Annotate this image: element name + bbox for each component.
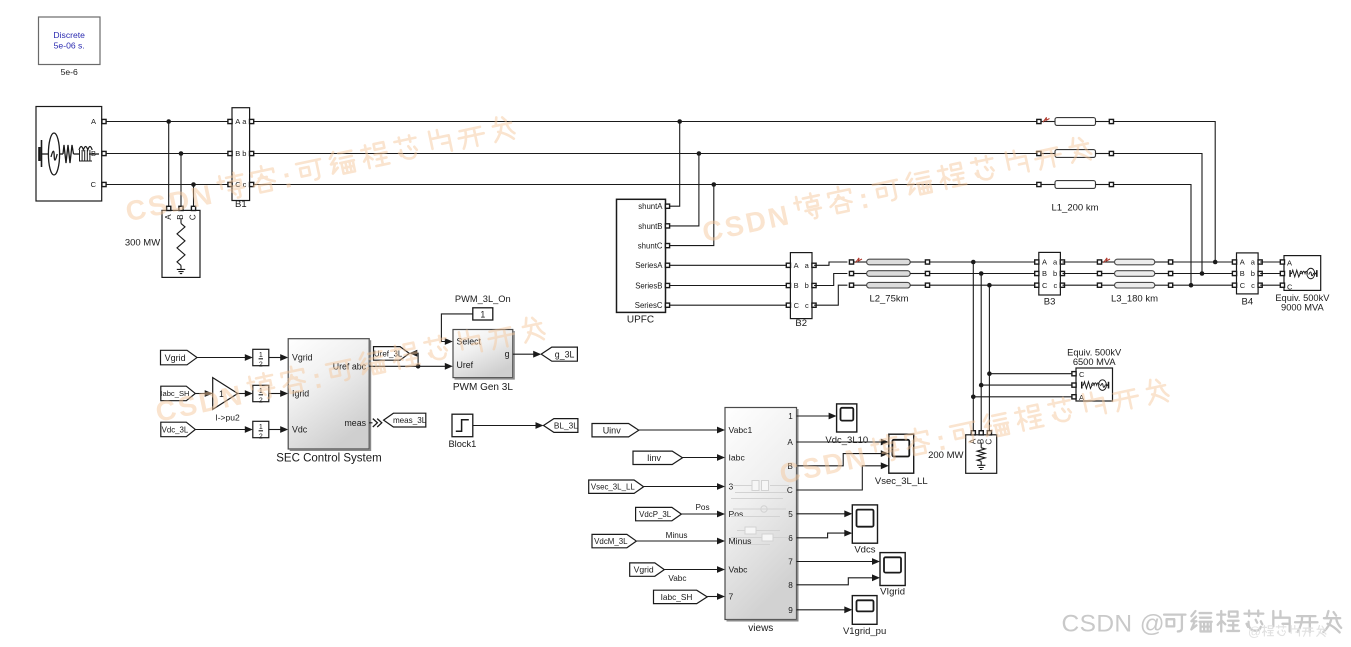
wire Iabc_SH to gain bbox=[195, 390, 212, 397]
svg-text:7: 7 bbox=[729, 592, 734, 602]
views input arrow bbox=[717, 454, 725, 461]
wire B2b to L2 bbox=[814, 274, 847, 286]
Goto tag meas_3L bbox=[384, 413, 427, 427]
svg-text:shuntC: shuntC bbox=[638, 242, 663, 251]
svg-text:L3_180 km: L3_180 km bbox=[1111, 294, 1158, 305]
wire drop A to 300MW bbox=[168, 122, 170, 207]
svg-text:A: A bbox=[787, 438, 793, 447]
wire PWM_3L_On to Select bbox=[441, 314, 472, 345]
wire bus C source-B1 bbox=[106, 184, 228, 186]
wire drop c to 200MW bbox=[988, 285, 990, 431]
scope Vdc_3L10 bbox=[825, 404, 868, 446]
node shuntC tap bbox=[712, 182, 717, 187]
wire Vdc_3L to half3 bbox=[195, 426, 253, 433]
wire L1b down bbox=[1114, 154, 1203, 274]
node shuntB tap bbox=[697, 151, 702, 156]
svg-text:g_3L: g_3L bbox=[555, 349, 575, 359]
UPFC subsystem block bbox=[617, 199, 670, 325]
B1 three-phase VI measurement bbox=[228, 108, 254, 210]
svg-text:V1grid_pu: V1grid_pu bbox=[843, 626, 886, 637]
wire meas bbox=[369, 419, 382, 427]
wire SeriesC to B2 bbox=[670, 304, 789, 306]
svg-text:Vabc: Vabc bbox=[729, 565, 749, 575]
wire B4-eq c bbox=[1260, 284, 1280, 286]
node L1a join bbox=[1213, 260, 1218, 265]
wire VdcP to views bbox=[681, 513, 721, 515]
From tag Vdc_3L bbox=[161, 422, 196, 437]
svg-text:6: 6 bbox=[788, 534, 793, 543]
wire out6 to Vdcs bbox=[797, 530, 853, 538]
svg-text:Vabc: Vabc bbox=[668, 574, 686, 583]
svg-text:SeriesC: SeriesC bbox=[635, 301, 663, 310]
wire Block1 to BL_3L bbox=[473, 422, 544, 429]
svg-text:C: C bbox=[1240, 281, 1246, 290]
From tag Vgrid2 bbox=[630, 563, 665, 576]
svg-text:SeriesB: SeriesB bbox=[635, 281, 662, 290]
svg-text:B: B bbox=[1240, 269, 1245, 278]
node bus A tap bbox=[166, 119, 171, 124]
From tag Vgrid bbox=[161, 350, 198, 365]
views input arrow bbox=[717, 593, 725, 600]
wire drop b to 200MW bbox=[980, 274, 982, 431]
wire Uinv to views bbox=[639, 429, 722, 431]
wire half2 to SEC bbox=[269, 390, 288, 397]
svg-text:A: A bbox=[91, 117, 96, 126]
svg-text:SEC Control System: SEC Control System bbox=[276, 453, 381, 465]
wire to equiv6500 A bbox=[973, 396, 1072, 398]
svg-text:A: A bbox=[794, 261, 799, 270]
svg-text:5e-06 s.: 5e-06 s. bbox=[54, 41, 85, 51]
svg-text:Vgrid: Vgrid bbox=[634, 565, 654, 575]
From tag VdcM_3L bbox=[592, 534, 636, 547]
wire L2-B3 b bbox=[930, 273, 1037, 275]
wire Uref up to tag bbox=[409, 350, 418, 367]
svg-text:L1_200 km: L1_200 km bbox=[1051, 203, 1098, 214]
wire drop B to 300MW bbox=[180, 154, 182, 207]
watermark 4 bbox=[777, 376, 1171, 490]
label Vabc bbox=[668, 574, 686, 583]
300 MW load block bbox=[125, 206, 200, 277]
svg-text:BL_3L: BL_3L bbox=[554, 420, 578, 430]
wire B4-eq b bbox=[1260, 273, 1280, 275]
node tap b mid-bus bbox=[979, 271, 984, 276]
From tag Iabc_SH bbox=[160, 386, 195, 401]
constant PWM_3L_On bbox=[455, 294, 511, 320]
SEC Control System subsystem bbox=[276, 339, 381, 465]
CSDN ghost small bbox=[1248, 624, 1326, 639]
svg-text:Uref: Uref bbox=[457, 360, 474, 370]
svg-text:Vdc_3L: Vdc_3L bbox=[162, 425, 189, 434]
B4 three-phase VI measurement bbox=[1232, 253, 1262, 308]
svg-text:B1: B1 bbox=[235, 199, 247, 210]
watermark 2 bbox=[699, 134, 1093, 248]
svg-text:b: b bbox=[805, 281, 809, 290]
svg-text:Iabc: Iabc bbox=[729, 453, 746, 463]
svg-text:A: A bbox=[235, 117, 240, 126]
svg-text:9000 MVA: 9000 MVA bbox=[1281, 303, 1325, 313]
Goto tag Uref_3L bbox=[374, 347, 410, 361]
svg-text:Vgrid: Vgrid bbox=[165, 353, 186, 363]
scope V1grid_pu bbox=[843, 596, 886, 637]
svg-text:Iabc_SH: Iabc_SH bbox=[661, 592, 693, 602]
svg-text:Vdcs: Vdcs bbox=[854, 545, 875, 556]
svg-text:Vsec_3L_LL: Vsec_3L_LL bbox=[591, 483, 635, 492]
svg-text:300 MW: 300 MW bbox=[125, 238, 160, 249]
svg-text:Minus: Minus bbox=[666, 531, 688, 540]
label Minus bbox=[666, 531, 688, 540]
svg-text:B: B bbox=[235, 149, 240, 158]
svg-text:Discrete: Discrete bbox=[53, 30, 85, 40]
svg-text:2: 2 bbox=[259, 361, 263, 368]
Goto tag BL_3L bbox=[544, 419, 579, 433]
svg-text:g: g bbox=[505, 349, 510, 359]
svg-text:C: C bbox=[985, 439, 994, 445]
svg-text:B3: B3 bbox=[1044, 297, 1056, 308]
watermark 3 bbox=[153, 314, 547, 428]
wire to equiv6500 C bbox=[989, 373, 1072, 375]
svg-text:PWM Gen 3L: PWM Gen 3L bbox=[453, 382, 513, 393]
node tap a mid-bus bbox=[971, 260, 976, 265]
200 MW load block bbox=[928, 431, 997, 474]
svg-text:SeriesA: SeriesA bbox=[635, 261, 663, 270]
wire Iabc_SH2 to views bbox=[707, 596, 721, 598]
svg-text::: : bbox=[856, 183, 872, 215]
wire gain to half2 bbox=[238, 390, 253, 397]
svg-text:CSDN @: CSDN @ bbox=[1062, 611, 1166, 638]
wire out7 to VIgrid bbox=[797, 558, 880, 565]
wire B4-eq a bbox=[1260, 261, 1280, 263]
wire Vgrid to half1 bbox=[197, 354, 253, 361]
wire L1a down bbox=[1114, 122, 1216, 263]
Goto tag g_3L bbox=[541, 347, 577, 361]
PWM Gen 3L subsystem bbox=[453, 330, 514, 393]
L1_200 km distributed line bbox=[1037, 117, 1114, 213]
From tag Iabc_SH2 bbox=[654, 590, 708, 603]
svg-text:@: @ bbox=[1248, 624, 1261, 639]
svg-text::: : bbox=[279, 162, 295, 194]
svg-text:1: 1 bbox=[788, 412, 793, 421]
views input arrow bbox=[717, 566, 725, 573]
L2_75km distributed line bbox=[849, 258, 929, 305]
svg-text:2: 2 bbox=[259, 397, 263, 404]
From tag Iinv bbox=[633, 451, 683, 464]
svg-text:1: 1 bbox=[259, 424, 263, 431]
node equiv6500 B tap bbox=[979, 383, 984, 388]
node L1b join bbox=[1200, 271, 1205, 276]
wire out9 to V1grid_pu bbox=[797, 606, 853, 613]
node bus C tap bbox=[191, 182, 196, 187]
wire L3-B4 a bbox=[1173, 261, 1233, 263]
svg-text:Uinv: Uinv bbox=[603, 425, 622, 435]
wire Iinv to views bbox=[683, 457, 722, 459]
wire B3-L3 a bbox=[1063, 261, 1098, 263]
svg-text:3: 3 bbox=[729, 482, 734, 492]
svg-text:A: A bbox=[1042, 258, 1047, 267]
label 5e-6 bbox=[61, 67, 78, 77]
svg-text:C: C bbox=[1287, 282, 1293, 291]
views input arrow bbox=[717, 538, 725, 545]
wire out5 to Vdcs bbox=[797, 510, 853, 517]
svg-text:Pos: Pos bbox=[729, 509, 744, 519]
svg-text:B: B bbox=[1042, 269, 1047, 278]
views input arrow bbox=[717, 427, 725, 434]
svg-text:8: 8 bbox=[788, 581, 793, 590]
views input arrow bbox=[717, 511, 725, 518]
svg-text:PWM_3L_On: PWM_3L_On bbox=[455, 294, 511, 304]
scope Vsec_3L_LL bbox=[875, 434, 928, 487]
svg-text:shuntB: shuntB bbox=[638, 222, 662, 231]
B2 three-phase VI measurement bbox=[786, 253, 816, 329]
svg-text:Vabc1: Vabc1 bbox=[729, 425, 753, 435]
svg-text:Vsec_3L_LL: Vsec_3L_LL bbox=[875, 476, 928, 487]
wire shuntC bbox=[670, 185, 714, 246]
wire bus A source-B1 bbox=[106, 121, 228, 123]
wire shuntB bbox=[670, 154, 699, 226]
wire L3-B4 b bbox=[1173, 273, 1233, 275]
gain half block 3 bbox=[253, 421, 269, 440]
wire B2c to L2 bbox=[814, 285, 847, 305]
wire Vgrid2 to views bbox=[664, 569, 721, 571]
wire Uref abc bbox=[369, 363, 453, 370]
svg-text:Iinv: Iinv bbox=[647, 453, 662, 463]
svg-text:UPFC: UPFC bbox=[627, 315, 654, 326]
From tag Uinv bbox=[592, 424, 639, 437]
svg-text:C: C bbox=[1079, 370, 1085, 379]
wire bus B source-B1 bbox=[106, 153, 228, 155]
svg-text:Equiv. 500kV: Equiv. 500kV bbox=[1275, 293, 1330, 303]
node equiv6500 A tap bbox=[971, 395, 976, 400]
svg-text:Block1: Block1 bbox=[448, 439, 476, 449]
wire VdcM to views bbox=[637, 540, 721, 542]
svg-text:VdcP_3L: VdcP_3L bbox=[639, 510, 672, 519]
svg-text:views: views bbox=[748, 623, 773, 634]
svg-text:b: b bbox=[1251, 269, 1255, 278]
three-phase source 500kV bbox=[36, 107, 106, 202]
svg-text:6500 MVA: 6500 MVA bbox=[1073, 357, 1117, 367]
node Uref junction bbox=[416, 364, 421, 369]
views subsystem bbox=[725, 408, 798, 634]
node tap c mid-bus bbox=[987, 283, 992, 288]
svg-text:b: b bbox=[242, 149, 246, 158]
svg-text:2: 2 bbox=[259, 433, 263, 440]
svg-text:Pos: Pos bbox=[695, 503, 709, 512]
wire out1 to Vdc_3L10 bbox=[797, 413, 837, 420]
scope Vdcs bbox=[852, 505, 877, 556]
wire L2-B3 c bbox=[930, 284, 1037, 286]
step Block1 bbox=[448, 414, 476, 449]
wire g to tag bbox=[513, 351, 541, 358]
wire SeriesA to B2 bbox=[670, 264, 789, 266]
wire Vsec to views bbox=[644, 486, 722, 488]
svg-text:7: 7 bbox=[788, 558, 793, 567]
wire L1c down bbox=[1114, 185, 1192, 286]
svg-text:5: 5 bbox=[788, 510, 793, 519]
L3_180 km distributed line bbox=[1097, 258, 1172, 305]
CSDN credit text bbox=[1062, 611, 1342, 638]
node bus B tap bbox=[179, 151, 184, 156]
wire B3-L3 b bbox=[1063, 273, 1098, 275]
wire L2-B3 a bbox=[930, 261, 1037, 263]
svg-text:Vgrid: Vgrid bbox=[292, 353, 313, 363]
svg-text:shuntA: shuntA bbox=[638, 202, 663, 211]
svg-text:c: c bbox=[1053, 281, 1057, 290]
wire half1 to SEC bbox=[269, 354, 288, 361]
wire bus B B1-L1 bbox=[254, 153, 1037, 155]
svg-text:VdcM_3L: VdcM_3L bbox=[594, 537, 628, 546]
svg-text:c: c bbox=[805, 301, 809, 310]
gain half block 1 bbox=[253, 349, 269, 368]
svg-text:meas_3L: meas_3L bbox=[393, 416, 427, 425]
wire L3-B4 c bbox=[1173, 284, 1233, 286]
svg-text:A: A bbox=[1240, 258, 1245, 267]
svg-text:VIgrid: VIgrid bbox=[880, 587, 905, 598]
svg-text:B: B bbox=[794, 281, 799, 290]
svg-text:C: C bbox=[91, 180, 97, 189]
wire bus A B1-L1 bbox=[254, 121, 1037, 123]
From tag VdcP_3L bbox=[636, 507, 682, 520]
Equiv. 500kV 6500 MVA source bbox=[1067, 348, 1122, 403]
svg-text:B2: B2 bbox=[795, 318, 807, 329]
svg-text:9: 9 bbox=[788, 606, 793, 615]
svg-text:C: C bbox=[189, 214, 198, 220]
watermark 1 bbox=[123, 113, 517, 227]
svg-text:meas: meas bbox=[344, 418, 366, 428]
svg-text:C: C bbox=[1042, 281, 1048, 290]
From tag Vsec_3L_LL bbox=[589, 480, 644, 493]
wire outC to Vsec scope bbox=[797, 462, 889, 490]
svg-text:C: C bbox=[794, 301, 800, 310]
wire half3 to SEC bbox=[269, 426, 288, 433]
node equiv6500 C tap bbox=[987, 371, 992, 376]
wire B3-L3 c bbox=[1063, 284, 1098, 286]
wire drop C to 300MW bbox=[193, 185, 195, 207]
svg-text:1: 1 bbox=[259, 352, 263, 359]
gain I->pu2 triangle bbox=[213, 378, 240, 423]
gain half block 2 bbox=[253, 385, 269, 404]
wire bus C B1-L1 bbox=[254, 184, 1037, 186]
svg-text:5e-6: 5e-6 bbox=[61, 67, 78, 77]
wire drop a to 200MW bbox=[972, 262, 974, 431]
node L1c join bbox=[1189, 283, 1194, 288]
node shuntA tap bbox=[677, 119, 682, 124]
wire shuntA bbox=[670, 122, 680, 207]
B3 three-phase VI measurement bbox=[1035, 252, 1065, 307]
svg-text:Vdc: Vdc bbox=[292, 425, 308, 435]
svg-text:c: c bbox=[1251, 281, 1255, 290]
svg-text:b: b bbox=[1053, 269, 1057, 278]
powergui Discrete block bbox=[39, 17, 101, 65]
wire out8 to VIgrid bbox=[797, 574, 880, 584]
svg-text:B4: B4 bbox=[1241, 297, 1253, 308]
Equiv. 500kV 9000 MVA source bbox=[1275, 256, 1330, 313]
wire to equiv6500 B bbox=[981, 384, 1072, 386]
label Pos bbox=[695, 503, 709, 512]
wire outA to Vsec scope bbox=[797, 439, 889, 446]
wire B2a to L2 bbox=[814, 262, 847, 265]
scope VIgrid bbox=[880, 553, 905, 598]
svg-text:1: 1 bbox=[480, 309, 485, 319]
wire SeriesB to B2 bbox=[670, 285, 789, 287]
views input arrow bbox=[717, 483, 725, 490]
svg-text:A: A bbox=[1287, 258, 1292, 267]
wire outB to Vsec scope bbox=[797, 450, 889, 466]
svg-text:L2_75km: L2_75km bbox=[869, 294, 908, 305]
